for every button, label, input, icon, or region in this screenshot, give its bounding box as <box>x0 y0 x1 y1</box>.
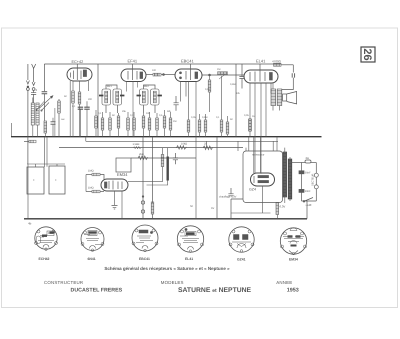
svg-text:6N41: 6N41 <box>88 257 96 261</box>
antenna <box>26 64 37 164</box>
svg-text:EM34: EM34 <box>289 258 298 262</box>
svg-text:chauffage 6,3V: chauffage 6,3V <box>219 196 237 199</box>
wire vertical x236 <box>235 64 237 137</box>
IF transformer T1 <box>102 89 111 105</box>
svg-text:MF2: MF2 <box>144 85 149 88</box>
svg-text:0,05: 0,05 <box>191 116 196 119</box>
tube EL41 U4 <box>244 70 278 83</box>
svg-text:EL41: EL41 <box>256 59 266 64</box>
wire bottom bus <box>24 218 307 220</box>
resistor R19 on mid rail <box>177 146 187 150</box>
tube EBC41 U3 <box>175 69 202 82</box>
coil L1 aerial <box>31 98 39 137</box>
svg-text:100: 100 <box>152 69 157 72</box>
capacitor C3 padder <box>51 118 56 137</box>
tube EF41 U2 <box>121 69 146 82</box>
capacitor C12 mains <box>299 163 304 202</box>
tube socket EL41 bottom view <box>177 226 203 253</box>
svg-text:50: 50 <box>112 114 115 117</box>
capacitor C14 <box>173 153 178 164</box>
coil L2 oscillator <box>58 101 61 113</box>
svg-text:~140: ~140 <box>305 203 312 207</box>
svg-text:MF1: MF1 <box>107 85 112 88</box>
resistor R16 <box>161 155 164 167</box>
resistor R20 on mid rail <box>203 146 213 150</box>
capacitor C7 <box>239 64 244 89</box>
capacitor C4 <box>78 107 83 137</box>
svg-text:1MΩ: 1MΩ <box>88 187 94 190</box>
wire gang links <box>27 137 65 219</box>
resistor R7 <box>208 80 211 92</box>
svg-text:2A: 2A <box>306 156 310 160</box>
svg-text:4b: 4b <box>28 222 32 226</box>
resistor R17 <box>151 202 154 214</box>
resistor R14 EM34 grid <box>86 173 104 179</box>
IF transformer T2 <box>140 89 149 105</box>
svg-text:0,05: 0,05 <box>205 88 210 91</box>
svg-text:SATURNE et NEPTUNE: SATURNE et NEPTUNE <box>178 287 252 294</box>
wire GZ40 connections <box>246 137 277 213</box>
svg-text:4700Ω: 4700Ω <box>272 60 282 64</box>
resistor R11 4700ohm in rail <box>274 63 294 66</box>
resistor R2 <box>78 92 81 104</box>
svg-text:1MΩ: 1MΩ <box>88 170 94 173</box>
svg-text:50: 50 <box>190 205 193 208</box>
ground chassis EM34 <box>112 206 118 210</box>
svg-text:SECTEUR: SECTEUR <box>312 173 315 186</box>
svg-text:6V: 6V <box>211 207 214 210</box>
value labels scattered <box>61 68 255 123</box>
wire EL41 pin drops <box>250 83 271 174</box>
resistor R10 screen <box>249 119 252 131</box>
dial box <box>116 158 131 172</box>
svg-text:2: 2 <box>36 88 38 92</box>
wire heater drops <box>216 137 218 219</box>
svg-text:ECH42: ECH42 <box>39 257 50 261</box>
svg-text:osc: osc <box>61 118 66 121</box>
wire mid rail <box>59 147 243 149</box>
wire ECH42 pin drops <box>69 81 71 137</box>
power unit box <box>243 151 283 203</box>
resistor R4 grid stopper <box>146 73 175 76</box>
tube socket GZ40 bottom view <box>229 227 254 253</box>
capacitor C4b <box>84 81 89 137</box>
svg-text:10k: 10k <box>236 92 241 95</box>
svg-text:MODELES: MODELES <box>161 280 184 285</box>
tube GZ40 U6 rectifier <box>251 173 275 186</box>
tube socket EBC41 bottom view <box>132 225 158 252</box>
svg-text:EBC41: EBC41 <box>181 59 194 64</box>
capacitor C11 <box>228 188 233 196</box>
svg-text:0,1: 0,1 <box>72 105 76 108</box>
svg-text:0,5M: 0,5M <box>202 116 207 119</box>
tuning gang CV1 <box>27 167 44 194</box>
svg-text:26: 26 <box>361 48 373 60</box>
svg-text:25k: 25k <box>122 110 127 113</box>
resistor R22 <box>44 121 47 133</box>
capacitor C5 <box>174 96 179 111</box>
wire EM34 drops <box>86 175 122 219</box>
mains plug <box>314 163 318 198</box>
svg-text:50nF: 50nF <box>305 190 311 193</box>
svg-text:1M: 1M <box>217 68 220 71</box>
svg-text:1953: 1953 <box>287 288 299 294</box>
tube EM34 U5 magic eye <box>101 179 128 191</box>
fuse F1 <box>292 160 317 163</box>
svg-text:+: + <box>55 178 57 182</box>
svg-text:+: + <box>33 178 35 182</box>
capacitor C8 <box>282 65 295 90</box>
wire EF41 pin drops <box>127 82 138 137</box>
speaker LS1 <box>283 92 297 104</box>
capacitor C1 antenna coupling <box>40 64 53 121</box>
wire drops EBC41 <box>181 82 197 219</box>
svg-text:0,5M: 0,5M <box>230 83 235 86</box>
resistor R18 on mid rail <box>133 146 141 148</box>
wire lower rail <box>131 157 196 159</box>
svg-text:10kΩ: 10kΩ <box>181 143 187 146</box>
svg-text:6,3V: 6,3V <box>280 205 286 209</box>
svg-text:0,5: 0,5 <box>159 114 163 117</box>
svg-text:0,1: 0,1 <box>216 116 220 119</box>
svg-text:EF41: EF41 <box>128 59 138 64</box>
svg-text:EM34: EM34 <box>117 172 128 177</box>
svg-text:Schéma général des récepteurs: Schéma général des récepteurs « Saturne … <box>104 266 230 271</box>
svg-text:0,1: 0,1 <box>98 112 102 115</box>
tube socket ECH42 bottom view <box>35 227 58 251</box>
plate number 26 box <box>361 47 375 62</box>
resistor R13 <box>24 140 36 143</box>
svg-text:100: 100 <box>146 112 151 115</box>
resistor R21 on lower rail <box>138 156 148 160</box>
wire ground bus <box>11 136 322 138</box>
power transformer T4 <box>283 148 292 203</box>
svg-text:1M: 1M <box>173 120 176 123</box>
svg-text:50: 50 <box>64 95 67 98</box>
svg-text:EBC41: EBC41 <box>139 257 150 261</box>
svg-text:ANNEE: ANNEE <box>276 280 292 285</box>
potentiometer P1 volume <box>202 72 244 79</box>
resistor R15 <box>86 190 104 193</box>
wire rail A <box>86 137 278 151</box>
wire top rail B+ <box>44 63 281 65</box>
switch S2 mains <box>302 198 317 203</box>
svg-text:CONSTRUCTEUR: CONSTRUCTEUR <box>44 280 83 285</box>
wire vertical left of EF41 <box>97 64 99 137</box>
dial lamp bar <box>167 157 169 181</box>
svg-text:EC+42: EC+42 <box>72 60 84 64</box>
tube socket EM34 bottom view <box>280 228 306 255</box>
tube socket EAF41 bottom view <box>81 228 104 252</box>
component comb above ground bus <box>95 116 252 134</box>
svg-text:50k: 50k <box>167 110 172 113</box>
wave change switch S1 <box>36 102 49 112</box>
tube ECH42 U1 <box>67 68 92 81</box>
svg-text:1,5kΩ: 1,5kΩ <box>133 143 140 146</box>
filament winding <box>276 203 279 215</box>
svg-text:EL41: EL41 <box>185 257 193 261</box>
resistor R1 <box>72 91 75 103</box>
svg-text:GZ4: GZ4 <box>249 188 256 192</box>
wire left of box <box>231 199 243 219</box>
pilot lamps <box>141 137 152 219</box>
svg-text:50: 50 <box>230 118 233 121</box>
svg-text:2kΩ: 2kΩ <box>139 153 144 156</box>
svg-text:GZ41: GZ41 <box>237 258 246 262</box>
output transformer T3 <box>271 83 282 111</box>
svg-text:25: 25 <box>204 143 207 146</box>
wire stub left <box>11 123 13 137</box>
tuning gang CV2 <box>49 166 65 194</box>
svg-text:200: 200 <box>88 98 93 101</box>
svg-text:DUCASTEL FRERES: DUCASTEL FRERES <box>71 288 123 294</box>
svg-text:0,05: 0,05 <box>244 114 249 117</box>
capacitor C2 antenna series <box>31 90 36 103</box>
svg-text:0,1: 0,1 <box>130 114 134 117</box>
svg-text:50nF: 50nF <box>305 172 311 175</box>
